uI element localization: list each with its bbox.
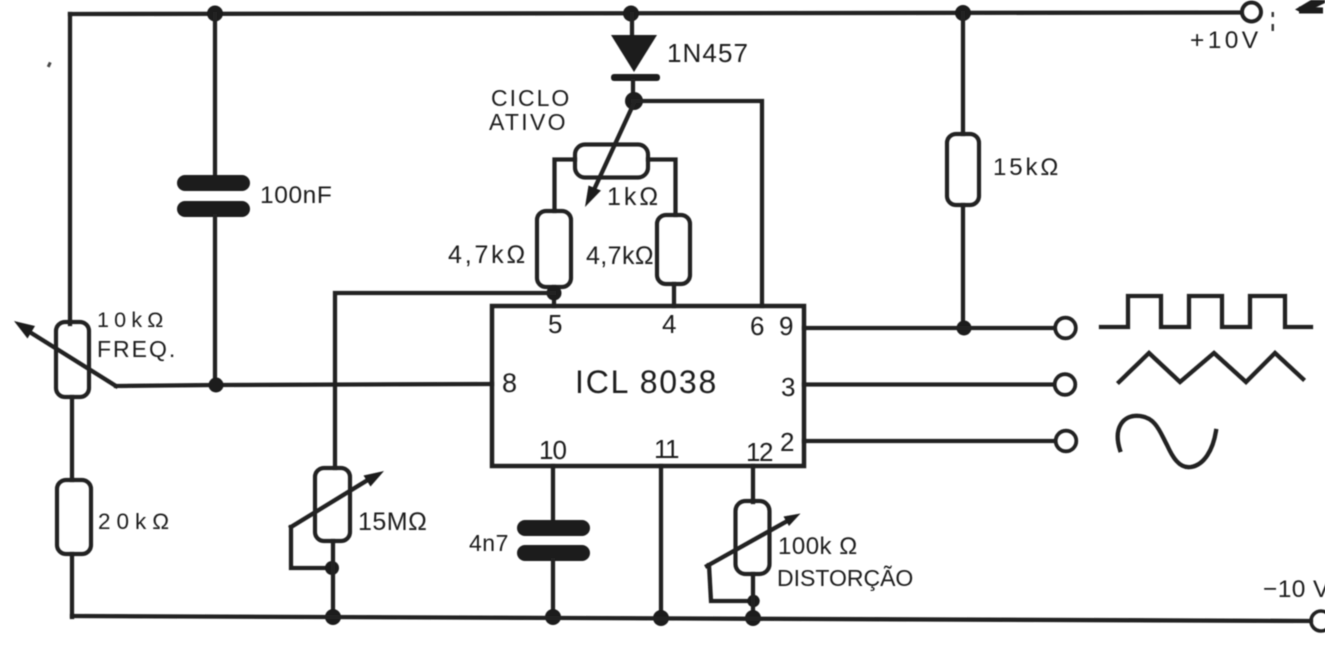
svg-text:FREQ.: FREQ. bbox=[97, 336, 177, 362]
svg-text:4,7kΩ: 4,7kΩ bbox=[448, 241, 528, 269]
potentiometer P3 15M body bbox=[315, 468, 350, 541]
wire: from pin5 node left and down to P3 bbox=[335, 293, 554, 468]
capacitor C1 plates bbox=[177, 175, 250, 217]
svg-text:+10V: +10V bbox=[1190, 27, 1262, 54]
wire: IC pin 11 to -10V rail bbox=[659, 466, 663, 618]
svg-text:ICL 8038: ICL 8038 bbox=[575, 364, 718, 400]
wire: P1 wiper to IC pin 8 bbox=[116, 384, 492, 386]
wire: R3 bottom lead to IC pin 5 bbox=[552, 287, 556, 306]
P2 wiper arrow bbox=[585, 103, 634, 207]
svg-text:10: 10 bbox=[539, 435, 566, 465]
resistor R6 15k body bbox=[947, 134, 979, 205]
terminal: -10V supply bbox=[1311, 611, 1325, 631]
wire: P1 bottom lead to R2 bbox=[70, 397, 74, 480]
icon: sine wave symbol bbox=[1118, 416, 1216, 467]
svg-text:11: 11 bbox=[654, 434, 679, 464]
svg-text:9: 9 bbox=[779, 311, 793, 341]
wire: from D1 cathode to IC pin 6 bbox=[633, 101, 762, 306]
P4 wiper arrow bbox=[707, 514, 801, 567]
node: junction P3 wiper / bottom lead bbox=[325, 561, 339, 575]
svg-text:6: 6 bbox=[750, 311, 764, 341]
node: junction P4 / -10V rail bbox=[745, 610, 761, 626]
svg-text:DISTORÇÃO: DISTORÇÃO bbox=[777, 565, 913, 591]
wire: P3 bottom lead to -10V rail bbox=[331, 541, 335, 618]
speck marks near +10V bbox=[1272, 12, 1275, 31]
decorative figure number 2 (cropped) bbox=[1295, 0, 1325, 14]
icon: triangle wave symbol bbox=[1119, 353, 1303, 382]
node: junction D1 cathode / P2 / pin6 wire bbox=[625, 92, 643, 110]
wire: IC pin 2 to sine output terminal bbox=[804, 439, 1054, 443]
wire: R6 bottom lead to pin9 wire bbox=[961, 205, 965, 329]
resistor R4 4,7k body bbox=[657, 215, 690, 284]
svg-text:100nF: 100nF bbox=[260, 182, 332, 209]
svg-text:8: 8 bbox=[502, 368, 517, 398]
speck mark top-left bbox=[47, 62, 52, 68]
svg-text:2: 2 bbox=[780, 427, 794, 457]
terminal: square wave output bbox=[1055, 318, 1076, 339]
wire: P2 right lead to R4 bbox=[648, 160, 676, 216]
svg-text:4,7kΩ: 4,7kΩ bbox=[586, 242, 654, 270]
wire: C1 top lead bbox=[213, 14, 217, 176]
node: junction top rail / D1 bbox=[623, 6, 639, 22]
svg-text:−10 V: −10 V bbox=[1263, 576, 1325, 603]
node: junction pin5 / R3 / P3 feed bbox=[547, 286, 562, 301]
wire: C2 bottom lead to -10V rail bbox=[551, 560, 555, 618]
wire: +10V top supply rail bbox=[70, 13, 1241, 15]
node: junction top rail / C1 bbox=[207, 6, 223, 22]
wire: R6 top lead bbox=[961, 13, 965, 134]
capacitor C2 4n7 plates bbox=[517, 520, 590, 561]
wire: C1 bottom lead to node A bbox=[213, 216, 217, 385]
wire: R2 bottom lead to -10V rail bbox=[70, 554, 74, 617]
terminal: +10V supply bbox=[1242, 3, 1261, 22]
svg-text:ATIVO: ATIVO bbox=[489, 109, 568, 135]
svg-text:4n7: 4n7 bbox=[469, 530, 509, 556]
svg-text:12: 12 bbox=[746, 437, 773, 467]
terminal: triangle wave output bbox=[1055, 374, 1076, 395]
icon: square wave symbol bbox=[1101, 296, 1311, 327]
wire: IC pin 10 to C2 bbox=[551, 466, 555, 522]
node: junction C2 / -10V rail bbox=[545, 609, 561, 625]
svg-text:3: 3 bbox=[781, 372, 795, 402]
node: junction pin11 / -10V rail bbox=[653, 610, 669, 626]
node: junction R6 / pin9 wire bbox=[957, 321, 972, 336]
svg-text:5: 5 bbox=[548, 309, 562, 339]
svg-text:100k Ω: 100k Ω bbox=[778, 533, 858, 560]
potentiometer P4 100k body bbox=[736, 501, 770, 574]
P1 wiper arrow bbox=[14, 321, 116, 386]
resistor R2 20k body bbox=[57, 480, 91, 554]
svg-text:1kΩ: 1kΩ bbox=[607, 183, 661, 211]
resistor R3 4,7k body bbox=[537, 211, 571, 287]
wire: P4 wiper bend to bottom lead bbox=[709, 565, 749, 601]
wire: IC pin 3 to triangle output terminal bbox=[804, 382, 1053, 386]
potentiometer P2 1kOhm body bbox=[575, 145, 648, 178]
svg-text:10kΩ: 10kΩ bbox=[97, 308, 169, 332]
svg-text:15MΩ: 15MΩ bbox=[358, 508, 427, 536]
potentiometer P1 10k FREQ body bbox=[56, 322, 89, 397]
svg-text:CICLO: CICLO bbox=[491, 85, 571, 111]
wire: P4 bottom lead to -10V rail bbox=[751, 574, 755, 619]
wire: left vertical branch from +10V rail to R1 bbox=[68, 14, 72, 324]
node: junction C1 / pin8 wire bbox=[209, 378, 224, 393]
wire: IC pin 12 to P4 bbox=[751, 466, 755, 502]
node: junction P3 / -10V rail bbox=[325, 609, 341, 625]
wire: IC pin 9 to square output terminal bbox=[804, 326, 1054, 330]
wire: -10V bottom rail bbox=[72, 616, 1311, 621]
wire: R4 bottom lead to IC pin 4 bbox=[672, 284, 676, 306]
wire: P2 left lead to R3 bbox=[555, 160, 576, 212]
svg-text:20kΩ: 20kΩ bbox=[98, 509, 175, 534]
diode D1 1N457 bbox=[611, 14, 660, 101]
wire: P3 wiper bend to bottom lead bbox=[291, 527, 327, 568]
svg-text:1N457: 1N457 bbox=[667, 38, 749, 68]
svg-text:15kΩ: 15kΩ bbox=[993, 154, 1061, 181]
svg-text:4: 4 bbox=[662, 309, 676, 339]
P3 wiper arrow bbox=[291, 471, 384, 527]
terminal: sine wave output bbox=[1056, 431, 1077, 452]
node: junction top rail / R6 bbox=[955, 5, 971, 21]
node: junction P4 wiper / bottom lead bbox=[747, 595, 759, 607]
IC U1 ICL8038 body bbox=[492, 306, 804, 466]
